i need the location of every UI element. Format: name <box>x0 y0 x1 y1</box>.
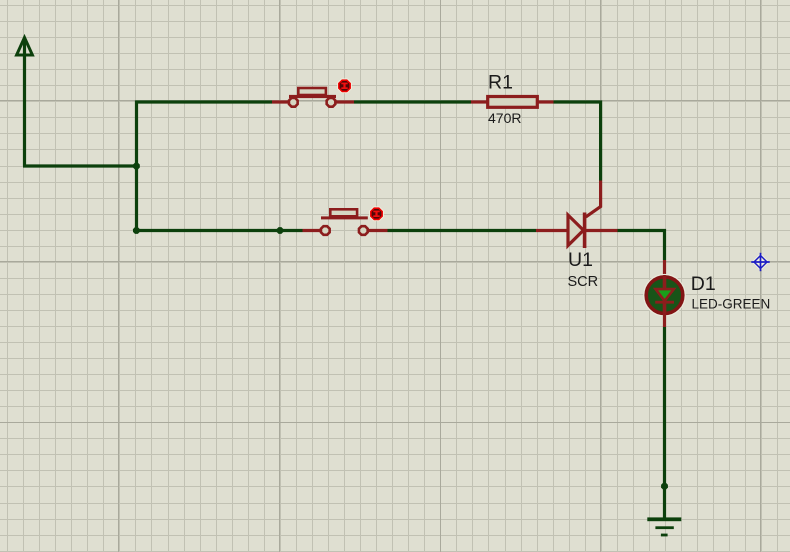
svg-text:D1: D1 <box>691 273 716 295</box>
wire <box>663 327 666 518</box>
wire <box>585 229 617 232</box>
wire <box>369 229 388 232</box>
origin marker <box>751 253 769 271</box>
wire <box>336 100 354 103</box>
svg-text:U1: U1 <box>568 249 593 271</box>
wire <box>135 229 303 232</box>
wire <box>135 100 272 103</box>
wire <box>538 100 554 103</box>
resistor R1 <box>488 97 538 108</box>
svg-text:SCR: SCR <box>568 274 599 290</box>
wire <box>272 100 289 103</box>
node A <box>133 163 140 170</box>
wire <box>135 101 138 233</box>
node B <box>133 227 140 234</box>
wire <box>303 229 322 232</box>
ground <box>647 517 681 536</box>
svg-text:R1: R1 <box>488 72 513 94</box>
push button state marker <box>369 207 384 222</box>
wire (SCR gate lead) <box>586 181 601 217</box>
push button state marker <box>337 79 352 94</box>
wire <box>354 100 471 103</box>
svg-text:LED-GREEN: LED-GREEN <box>692 297 771 312</box>
wire <box>388 229 537 232</box>
wire <box>554 102 601 181</box>
svg-text:470R: 470R <box>488 110 521 126</box>
wire <box>23 164 138 167</box>
LED D1 <box>644 274 686 316</box>
wire <box>471 100 487 103</box>
SCR U1 <box>568 213 585 249</box>
power symbol <box>17 38 33 167</box>
node D <box>661 483 668 490</box>
push button (top) <box>289 88 336 107</box>
wire (LED cathode lead) <box>663 314 666 327</box>
wire (LED anode lead) <box>663 260 666 277</box>
wire (SCR anode lead) <box>536 229 568 232</box>
node C <box>277 227 284 234</box>
wire <box>618 231 665 261</box>
push button (bottom) <box>321 209 368 235</box>
